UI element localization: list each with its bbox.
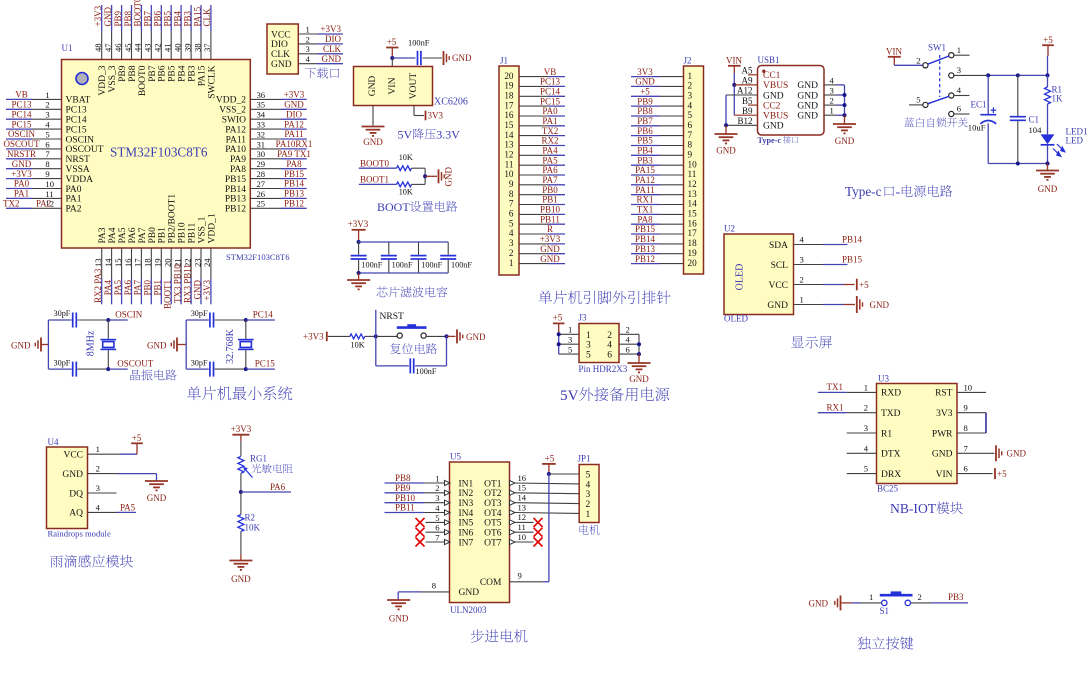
svg-text:6: 6: [957, 104, 962, 114]
svg-text:+5: +5: [1043, 35, 1053, 45]
svg-text:PC13: PC13: [540, 77, 561, 87]
svg-text:CC1: CC1: [763, 71, 781, 81]
svg-text:GND: GND: [103, 7, 113, 27]
U3 pin 3 wire: [847, 432, 877, 434]
U1 pin 22 PB11 wire: [190, 248, 192, 279]
svg-text:PA2: PA2: [66, 205, 82, 215]
ground (power) filter caps: [347, 279, 370, 281]
U2 pin 4 wire: [794, 244, 824, 246]
svg-text:100nF: 100nF: [416, 367, 437, 376]
svg-text:GND: GND: [932, 450, 953, 460]
wire pin3 to +5 node: [954, 74, 988, 76]
svg-text:100nF: 100nF: [451, 260, 472, 269]
svg-text:GND: GND: [797, 81, 818, 91]
svg-text:VSS_3: VSS_3: [108, 65, 118, 92]
svg-text:8: 8: [45, 159, 49, 169]
svg-text:2: 2: [626, 325, 630, 335]
svg-text:PB11: PB11: [395, 503, 415, 513]
wire node to pin top: [246, 319, 275, 321]
svg-text:VDDA: VDDA: [66, 175, 94, 185]
svg-text:GND: GND: [12, 159, 32, 169]
svg-text:PC14: PC14: [253, 309, 274, 319]
U1 pin 36 VDD_2 wire: [250, 98, 281, 100]
svg-text:3: 3: [96, 483, 100, 493]
J1 pin 12 wire: [519, 154, 548, 156]
svg-text:16: 16: [518, 473, 527, 483]
U5 pin 3 IN3 wire: [385, 502, 425, 504]
label stepper motor: [471, 629, 484, 642]
svg-text:Type-c: Type-c: [758, 136, 782, 145]
svg-text:3: 3: [864, 423, 868, 433]
svg-text:31: 31: [257, 139, 266, 149]
svg-text:2: 2: [96, 464, 100, 474]
svg-text:3V3: 3V3: [637, 67, 653, 77]
U5 pin 2 IN2 wire: [385, 492, 425, 494]
download header pin 4 wire: [298, 63, 317, 65]
svg-text:6: 6: [45, 139, 50, 149]
U1 pin 33 PA12 wire: [250, 128, 281, 130]
svg-text:DRX: DRX: [881, 470, 901, 480]
switch gang dashed link: [939, 55, 941, 97]
wire CC1 stub: [748, 74, 758, 76]
svg-text:6: 6: [964, 464, 969, 474]
svg-text:2: 2: [435, 483, 439, 493]
J3 pin 2 wire: [619, 333, 639, 335]
J1 pin 9 wire: [519, 184, 548, 186]
wire BOOT0: [359, 167, 397, 169]
svg-text:NRST: NRST: [66, 155, 90, 165]
wire +5 down to COM: [548, 474, 550, 582]
svg-text:PB8: PB8: [128, 65, 138, 82]
svg-text:7: 7: [964, 443, 969, 453]
svg-text:PA1: PA1: [66, 195, 82, 205]
ground (power) of XC6206: [362, 126, 385, 128]
svg-text:PB12: PB12: [225, 205, 246, 215]
svg-text:+3V3: +3V3: [540, 234, 561, 244]
node OSCIN: [106, 318, 110, 322]
svg-text:1: 1: [800, 295, 804, 305]
svg-text:BOOT0: BOOT0: [138, 65, 148, 96]
svg-text:C1: C1: [1029, 115, 1040, 125]
svg-text:OSCIN: OSCIN: [115, 309, 143, 319]
U1 pin 14 PA4 wire: [111, 248, 113, 279]
svg-text:OT6: OT6: [484, 529, 502, 539]
svg-text:4: 4: [607, 341, 612, 351]
svg-text:A9: A9: [742, 76, 753, 86]
U1 pin 42 PB6 wire: [160, 31, 162, 60]
svg-text:OLED: OLED: [724, 314, 748, 324]
svg-text:PA12: PA12: [225, 125, 246, 135]
wire SCL to PB15: [823, 264, 848, 266]
svg-text:J3: J3: [579, 313, 588, 323]
wire GND pin down: [372, 106, 374, 126]
svg-text:VSS_1: VSS_1: [197, 216, 207, 243]
svg-text:SCL: SCL: [771, 261, 789, 271]
svg-text:PB3: PB3: [637, 155, 653, 165]
U3 pin 2 wire RX1: [818, 412, 847, 414]
svg-text:PB8: PB8: [123, 10, 133, 26]
svg-text:30: 30: [257, 149, 266, 159]
svg-text:34: 34: [257, 110, 266, 120]
svg-text:RX2: RX2: [541, 136, 558, 146]
svg-text:JP1: JP1: [578, 454, 591, 464]
ground (power) J3: [628, 362, 651, 364]
U3 pin 1 wire TX1: [818, 391, 847, 393]
J3 pin 4 wire: [619, 343, 639, 345]
svg-text:PB15: PB15: [225, 175, 246, 185]
wire gnd to caps: [41, 344, 48, 346]
node NRST: [374, 334, 378, 338]
U1 pin 2 PC13 wire: [6, 108, 32, 110]
node J3 pin4: [637, 342, 641, 346]
wire filter to gnd: [358, 273, 360, 280]
svg-text:12: 12: [504, 150, 514, 160]
node PC15: [244, 367, 248, 371]
svg-text:RX1: RX1: [827, 403, 844, 413]
svg-text:5: 5: [688, 110, 693, 120]
svg-text:PB14: PB14: [225, 185, 246, 195]
svg-text:OSCOUT: OSCOUT: [66, 145, 104, 155]
download header pin 2 wire: [298, 43, 317, 45]
svg-text:IN2: IN2: [459, 489, 474, 499]
node gnd pins 3 2 1: [843, 93, 847, 97]
svg-text:PA8: PA8: [230, 165, 246, 175]
svg-text:VSS_2: VSS_2: [219, 106, 246, 116]
svg-text:PB4: PB4: [178, 65, 188, 82]
svg-text:OSCOUT: OSCOUT: [117, 358, 154, 368]
svg-text:8: 8: [432, 581, 436, 591]
svg-text:10: 10: [518, 532, 527, 542]
svg-text:5: 5: [45, 129, 49, 139]
svg-text:4: 4: [957, 85, 962, 95]
svg-text:+3V3: +3V3: [348, 219, 369, 229]
node GND B12: [724, 123, 728, 127]
svg-text:3: 3: [830, 86, 834, 96]
svg-text:13: 13: [688, 189, 698, 199]
svg-text:2: 2: [586, 500, 591, 510]
U1 pin 20 PB2/BOOT1 wire: [170, 248, 172, 279]
svg-text:GND: GND: [231, 574, 251, 584]
svg-text:35: 35: [257, 100, 266, 110]
U5 pin 15 OT2 wire to JP1: [510, 490, 516, 495]
svg-text:GND: GND: [835, 136, 855, 146]
svg-text:PA10RX1: PA10RX1: [276, 139, 313, 149]
J1 pin 16 wire: [519, 115, 548, 117]
U1 pin 10 PA0 wire: [6, 188, 32, 190]
label motor: [579, 525, 588, 535]
svg-text:PA15: PA15: [197, 65, 207, 86]
node filter top-left: [357, 240, 361, 244]
label raindrop sensing module: [50, 555, 63, 567]
svg-text:1: 1: [830, 106, 834, 116]
svg-text:VBUS: VBUS: [763, 112, 788, 122]
svg-text:GND: GND: [797, 112, 818, 122]
svg-text:PB9: PB9: [395, 483, 411, 493]
svg-text:1: 1: [306, 24, 310, 34]
svg-text:19: 19: [504, 81, 514, 91]
svg-text:10: 10: [964, 382, 973, 392]
svg-text:A12: A12: [737, 86, 753, 96]
svg-text:PB3: PB3: [948, 592, 964, 602]
J2 pin 18 wire: [631, 243, 660, 245]
U3 pin 8 wire PWR: [957, 432, 986, 434]
svg-text:32: 32: [257, 129, 266, 139]
svg-text:SWIO: SWIO: [222, 116, 246, 126]
svg-text:U5: U5: [450, 452, 461, 462]
svg-text:PB3: PB3: [182, 10, 192, 26]
svg-text:9: 9: [688, 150, 693, 160]
node PC14: [244, 318, 248, 322]
J3 pin 1 wire: [559, 333, 579, 335]
svg-text:4: 4: [586, 480, 591, 490]
node +5 JP1: [547, 472, 551, 476]
svg-text:IN1: IN1: [459, 479, 474, 489]
svg-text:6: 6: [607, 351, 612, 361]
svg-text:10: 10: [504, 169, 514, 179]
svg-text:20: 20: [504, 71, 514, 81]
capacitor 30pF bottom: [48, 368, 71, 370]
svg-text:1: 1: [96, 444, 100, 454]
wire to left gnd: [725, 125, 727, 133]
U1 pin 9 VDDA wire: [6, 178, 32, 180]
node PA6: [239, 490, 243, 494]
svg-text:PC15: PC15: [11, 119, 32, 129]
svg-text:PB10: PB10: [178, 222, 188, 243]
J2 pin 2 wire: [631, 85, 660, 87]
wire 3V3 to PWR loop: [985, 413, 987, 433]
svg-text:11: 11: [688, 169, 697, 179]
svg-text:GND: GND: [870, 300, 890, 310]
svg-text:PB12: PB12: [635, 254, 655, 264]
svg-text:PB7: PB7: [637, 116, 653, 126]
svg-text:+3V3: +3V3: [11, 169, 32, 179]
resistor RG1 photoresistor: [238, 456, 244, 473]
connector JP1 motor body: [579, 465, 599, 523]
svg-text:PC14: PC14: [11, 109, 32, 119]
U5 pin 13 OT4 wire to JP1: [510, 510, 516, 515]
switch blade lower: [928, 96, 949, 104]
svg-text:PA1: PA1: [542, 116, 557, 126]
svg-text:S1: S1: [880, 606, 890, 616]
svg-text:RXD: RXD: [881, 389, 901, 399]
svg-text:2: 2: [918, 592, 922, 602]
U3 pin 4 wire: [847, 452, 877, 454]
capacitor 30pF top: [186, 319, 209, 321]
wire NRST down to cap rail: [375, 336, 377, 366]
svg-text:DTX: DTX: [881, 450, 901, 460]
J2 pin 19 wire: [631, 253, 660, 255]
wire NRST vertical: [375, 310, 377, 337]
svg-text:VCC: VCC: [63, 451, 83, 461]
svg-text:5: 5: [568, 345, 572, 355]
capacitor 30pF bottom: [186, 368, 209, 370]
capacitor 100nF (XC6206 input): [417, 51, 419, 65]
svg-text:9: 9: [509, 179, 514, 189]
U5 pin 5 IN5 wire (no connect): [426, 521, 445, 523]
J1 pin 17 wire: [519, 105, 548, 107]
J2 pin 14 wire: [631, 204, 660, 206]
svg-text:VIN: VIN: [936, 470, 953, 480]
svg-text:PB15: PB15: [284, 169, 305, 179]
node +5 rail c: [1046, 73, 1050, 77]
svg-text:4: 4: [688, 100, 693, 110]
svg-text:14: 14: [688, 199, 698, 209]
svg-text:38: 38: [192, 43, 202, 52]
U1 pin 40 PB4 wire: [180, 31, 182, 60]
svg-text:IN5: IN5: [459, 519, 474, 529]
svg-text:GND: GND: [635, 77, 655, 87]
svg-text:24: 24: [202, 258, 212, 267]
svg-text:GND: GND: [271, 60, 292, 70]
label reset circuit: [390, 343, 401, 354]
svg-text:PB4: PB4: [172, 10, 182, 26]
svg-text:PB14: PB14: [284, 179, 305, 189]
ground (power) RG1: [229, 560, 252, 562]
U5 pin 10 OT7 wire (no connect): [510, 539, 516, 544]
wire VIN down to VBUS rows: [733, 73, 735, 115]
U1 pin 6 OSCOUT wire: [6, 148, 32, 150]
wire cap to node top: [77, 319, 108, 321]
wire cap to node top: [215, 319, 246, 321]
svg-text:+3V3: +3V3: [231, 424, 252, 434]
svg-text:PA5: PA5: [120, 502, 136, 512]
J2 pin 9 wire: [631, 154, 660, 156]
svg-text:OT4: OT4: [484, 509, 502, 519]
U2 pin 1 wire: [794, 304, 824, 306]
svg-text:11: 11: [45, 189, 53, 199]
U1 pin 35 VSS_2 wire: [250, 108, 281, 110]
svg-text:11: 11: [518, 522, 526, 532]
svg-text:15: 15: [688, 209, 698, 219]
svg-text:IN3: IN3: [459, 499, 474, 509]
svg-text:PA12: PA12: [635, 175, 655, 185]
U4 pin 3 wire: [88, 492, 117, 494]
J2 pin 12 wire: [631, 184, 660, 186]
svg-text:STM32F103C8T6: STM32F103C8T6: [110, 145, 208, 160]
svg-text:CLK: CLK: [323, 44, 342, 54]
svg-text:3V3: 3V3: [428, 111, 444, 121]
svg-text:COM: COM: [480, 578, 502, 588]
svg-text:10: 10: [688, 159, 698, 169]
J3 pin 3 wire: [559, 343, 579, 345]
wire right vertical (reset): [446, 336, 448, 366]
USB1 pin 2 wire: [824, 104, 837, 106]
wire VIN down to U body: [391, 58, 393, 67]
resistor R1 1K: [1047, 75, 1049, 87]
U4 pin 1 wire: [88, 453, 120, 455]
svg-text:STM32F103C8T6: STM32F103C8T6: [226, 252, 290, 262]
svg-text:9: 9: [45, 169, 49, 179]
svg-text:1: 1: [509, 258, 514, 268]
U1 pin 44 BOOT0 wire: [140, 31, 142, 60]
wire gnd bend: [397, 592, 399, 600]
svg-text:TX1: TX1: [827, 382, 844, 392]
svg-text:2: 2: [45, 100, 49, 110]
module U3 BC25 body: [877, 384, 958, 484]
U1 pin 5 OSCIN wire: [6, 138, 32, 140]
svg-text:5V: 5V: [560, 387, 579, 404]
svg-text:PB5: PB5: [163, 10, 173, 26]
capacitor 100nF #4: [447, 242, 449, 255]
wire BOOT1 resistor to junction: [412, 183, 426, 185]
svg-text:4: 4: [435, 503, 440, 513]
svg-text:PA4: PA4: [108, 227, 118, 243]
wire VBUS B9 stub: [734, 114, 757, 116]
svg-text:1: 1: [864, 382, 868, 392]
resistor 10K (BOOT1): [397, 182, 412, 187]
svg-text:10: 10: [45, 179, 54, 189]
switch SW1 pin6: [949, 111, 954, 116]
push button (reset): [397, 333, 402, 338]
svg-text:47: 47: [103, 43, 113, 52]
svg-text:PB5: PB5: [637, 136, 653, 146]
U1 pin 41 PB5 wire: [170, 31, 172, 60]
J1 pin 19 wire: [519, 85, 548, 87]
svg-text:-: -: [896, 184, 900, 199]
svg-text:PB6: PB6: [637, 126, 653, 136]
wire GND to gnd: [823, 304, 844, 306]
svg-text:PB9: PB9: [118, 65, 128, 82]
node +5 rail b: [1016, 73, 1020, 77]
svg-text:PC13: PC13: [11, 100, 32, 110]
svg-text:PB10: PB10: [540, 205, 561, 215]
svg-text:GND: GND: [797, 101, 818, 111]
wire SW1 pin5: [909, 104, 923, 106]
svg-text:PA7: PA7: [138, 227, 148, 243]
svg-text:41: 41: [163, 43, 173, 52]
J1 pin 13 wire: [519, 145, 548, 147]
svg-text:B12: B12: [737, 116, 752, 126]
wire RG1 to node: [240, 473, 242, 492]
svg-text:13: 13: [504, 140, 514, 150]
svg-text:PB11: PB11: [188, 222, 198, 243]
svg-text:5: 5: [864, 464, 868, 474]
svg-text:BOOT1: BOOT1: [360, 174, 389, 184]
svg-text:26: 26: [257, 189, 266, 199]
svg-text:GND: GND: [363, 137, 383, 147]
svg-text:3: 3: [957, 65, 961, 75]
svg-text:VOUT: VOUT: [409, 73, 419, 100]
svg-text:PA6: PA6: [128, 227, 138, 243]
J1 pin 8 wire: [519, 194, 548, 196]
svg-text:PA8: PA8: [286, 159, 302, 169]
svg-text:U2: U2: [724, 224, 735, 234]
svg-text:PB8: PB8: [395, 473, 411, 483]
svg-text:TXD: TXD: [881, 409, 901, 419]
label MCU pin headers: [538, 291, 552, 304]
U1 pin 30 PA9 wire: [250, 158, 281, 160]
svg-text:PA3: PA3: [98, 227, 108, 243]
svg-text:PB7: PB7: [148, 65, 158, 82]
U1 pin 8 VSSA wire: [6, 168, 32, 170]
svg-text:EC1: EC1: [971, 100, 987, 110]
label switch type: [904, 118, 914, 127]
svg-text:7: 7: [45, 149, 50, 159]
svg-text:19: 19: [153, 258, 163, 267]
resistor 10K (reset): [350, 334, 365, 339]
J2 pin 8 wire: [631, 145, 660, 147]
svg-text:PA5: PA5: [542, 155, 558, 165]
wire GND B12 stub: [726, 124, 758, 126]
wire junction vertical: [424, 168, 426, 184]
node J3 pin3: [557, 342, 561, 346]
wire gnd to button: [841, 602, 852, 604]
J1 pin 14 wire: [519, 135, 548, 137]
J2 pin 10 wire: [631, 164, 660, 166]
svg-text:VBAT: VBAT: [66, 96, 91, 106]
U1 pin 37 SWCLK wire: [210, 31, 212, 60]
U1 pin 28 PB15 wire: [250, 178, 281, 180]
